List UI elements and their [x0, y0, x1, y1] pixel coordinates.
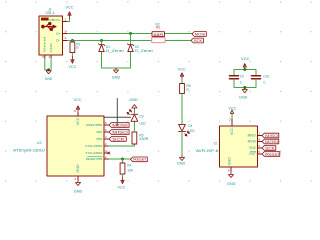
U3 pin 5 AREF/PB0 [104, 124, 109, 126]
svg-text:PB2: PB2 [97, 137, 103, 141]
wire R1 bottom [71, 53, 73, 57]
global label Reset [131, 157, 148, 162]
U3 pin 4 GND [77, 176, 79, 181]
power VCC (U3) [76, 106, 79, 113]
svg-text:MOSI: MOSI [195, 32, 206, 36]
wire R1 top [72, 41, 74, 43]
wire D2 bottom [130, 52, 132, 69]
svg-text:SCK: SCK [194, 39, 203, 43]
power VCC (J1) [68, 12, 71, 19]
junction reset [121, 158, 124, 161]
svg-text:ATtiny85-20SU: ATtiny85-20SU [13, 148, 46, 152]
svg-text:SCK: SCK [265, 146, 276, 150]
svg-text:GND: GND [177, 162, 186, 166]
no-connect pin 3 [108, 152, 110, 154]
J2 pin 3 SCK [258, 147, 263, 149]
J2 pin 6 GND [230, 167, 232, 171]
svg-text:Shield: Shield [43, 36, 47, 53]
svg-text:C: C [240, 80, 243, 84]
ground (D4) [179, 156, 184, 161]
wire zener common [102, 67, 131, 69]
svg-text:GND: GND [45, 77, 53, 81]
wire D4 to GND [181, 131, 183, 155]
ground (zeners) [113, 68, 118, 73]
wire cap bottom rail [234, 79, 256, 88]
svg-text:D+: D+ [56, 32, 60, 36]
J2 pin 2 VCC [231, 119, 233, 126]
svg-text:VCC: VCC [118, 186, 127, 190]
diode D3 LED [127, 110, 138, 122]
svg-text:PB1: PB1 [97, 130, 103, 134]
ground (J2) [228, 171, 233, 178]
svg-text:D-: D- [56, 38, 59, 42]
U3 pin 1 RESET/PB5 [104, 158, 109, 160]
svg-text:C: C [263, 80, 266, 84]
diode D4 LED [179, 124, 190, 136]
svg-text:10k: 10k [127, 168, 133, 172]
svg-text:AVR-ISP-6: AVR-ISP-6 [196, 149, 219, 153]
diode D2 D_Zener [128, 44, 134, 52]
svg-text:U3: U3 [37, 141, 42, 145]
svg-text:USB_A: USB_A [46, 11, 56, 15]
wire PB5 reset [109, 158, 131, 160]
power VCC (caps) [243, 64, 246, 70]
svg-text:RST: RST [249, 152, 255, 156]
svg-text:Reset: Reset [133, 158, 146, 162]
resistor R5 [132, 132, 137, 144]
svg-text:R3: R3 [156, 26, 160, 30]
svg-text:C9: C9 [240, 74, 244, 78]
wire PB3 to R5 [109, 144, 134, 146]
svg-text:VCC: VCC [230, 126, 234, 135]
svg-text:XTAL2/PB4: XTAL2/PB4 [85, 151, 102, 155]
power VCC (J2) [230, 110, 233, 115]
wire D+ after R2 [165, 33, 193, 35]
svg-text:68R: 68R [153, 33, 164, 37]
svg-text:Reset: Reset [265, 152, 279, 156]
junction D2 tap [129, 32, 132, 35]
wire D3 to GND [133, 109, 135, 114]
wire D1 top [101, 41, 103, 45]
U3 pin 8 VCC [77, 113, 79, 117]
svg-text:XTAL1/PB3: XTAL1/PB3 [85, 144, 102, 148]
wire J1 gnd down [50, 58, 52, 70]
U3 pin 3 XTAL2/PB4 [104, 152, 109, 154]
wire VCC to J2 pin2 [231, 115, 233, 120]
svg-text:6: 6 [228, 168, 230, 172]
svg-text:D_Zener: D_Zener [135, 49, 154, 53]
svg-text:GND: GND [239, 95, 248, 99]
resistor R4 [120, 163, 125, 174]
J1 pin 1 VBUS stub [63, 21, 68, 23]
svg-text:VCC: VCC [68, 65, 77, 69]
cursor crosshair [104, 99, 131, 126]
USB trident icon [42, 22, 56, 30]
svg-text:LED: LED [140, 121, 147, 125]
svg-text:RESET/PB5: RESET/PB5 [86, 157, 103, 161]
resistor R1 [70, 42, 75, 53]
global label MOSI (J2) [262, 139, 279, 144]
wire D+ line [68, 33, 153, 35]
svg-text:GND: GND [129, 98, 138, 102]
J1 pin 2 D- stub [63, 40, 68, 42]
svg-text:VCC: VCC [241, 57, 250, 61]
resistor R3 (highlighted) [152, 38, 165, 43]
svg-text:VCC: VCC [76, 117, 80, 126]
svg-text:MOSI: MOSI [112, 123, 128, 127]
global label Reset (J2) [262, 152, 280, 157]
ground (J1) [46, 70, 51, 74]
wire D2 top [130, 34, 132, 45]
junction D1 tap [100, 39, 103, 42]
svg-text:SCK: SCK [112, 137, 126, 141]
svg-text:D4: D4 [188, 124, 192, 128]
VBUS icon [41, 18, 49, 21]
wire D- line [68, 40, 153, 42]
svg-text:LED: LED [188, 129, 195, 133]
ground (caps) [242, 88, 247, 93]
svg-text:GND: GND [227, 182, 236, 186]
svg-text:GND: GND [49, 43, 53, 53]
wire D- after R3 [165, 40, 191, 42]
wire reset to R4 [122, 159, 124, 163]
wire R5 to D3 [133, 121, 135, 132]
svg-text:VCC: VCC [178, 68, 187, 72]
capacitor C10 [252, 76, 261, 79]
power VCC (R1, rotated 180) [71, 57, 74, 64]
wire J1 shield down [45, 58, 48, 70]
J1 pin 4 gnd stub [50, 55, 52, 58]
svg-text:GND: GND [74, 190, 83, 194]
svg-text:VCC: VCC [228, 106, 237, 110]
svg-text:MOSI: MOSI [248, 140, 256, 144]
svg-text:MISO: MISO [248, 134, 257, 138]
U3 pin 6 PB1 [104, 131, 109, 133]
J2 pin 4 MOSI [258, 141, 263, 143]
connector J1 USB_A body [39, 7, 63, 55]
svg-text:8: 8 [74, 109, 76, 113]
svg-text:SCK: SCK [249, 146, 256, 150]
svg-text:MISO: MISO [265, 134, 278, 138]
capacitor C9 [230, 76, 239, 79]
svg-text:R: R [186, 88, 189, 92]
svg-text:C10: C10 [263, 74, 269, 78]
wire R4 bottom [122, 174, 124, 177]
svg-text:J2: J2 [214, 142, 218, 146]
wire VBUS to VCC [68, 19, 70, 22]
wire VCC to R6 [181, 80, 183, 84]
connector J2 AVR-ISP-6 body [220, 126, 258, 167]
global label SCK (U3) [109, 137, 126, 142]
ground (D3, rotated) [132, 105, 137, 109]
global label MISO (U3) [109, 130, 129, 135]
wire cap top rail [234, 70, 256, 76]
resistor R2 (with value inside) [152, 32, 165, 37]
resistor R6 [180, 84, 185, 94]
global label MOSI (usb) [192, 32, 206, 37]
svg-text:R4: R4 [127, 163, 131, 167]
global label MOSI (U3) [109, 123, 129, 128]
svg-text:VBUS: VBUS [49, 18, 60, 22]
svg-text:D_Zener: D_Zener [106, 49, 125, 53]
global label SCK (J2) [262, 146, 276, 151]
svg-text:4: 4 [74, 177, 76, 181]
power VCC (R4, rotated 180) [121, 177, 124, 184]
wire R6 to D4 [181, 94, 183, 125]
wire D1 bottom [101, 52, 103, 69]
svg-text:MISO: MISO [112, 130, 128, 134]
J2 pin 5 RST [258, 153, 263, 155]
junction J1 gnd [47, 68, 50, 71]
J1 pin 5 shield stub [44, 55, 46, 58]
global label MISO (J2) [262, 133, 279, 138]
svg-text:2: 2 [229, 117, 231, 121]
J2 pin 1 MISO [258, 135, 263, 137]
svg-text:MOSI: MOSI [265, 140, 278, 144]
U3 pin 7 PB2 [104, 138, 109, 140]
diode D1 D_Zener [99, 44, 105, 52]
svg-text:330R: 330R [139, 137, 149, 141]
junction cap bottom [243, 86, 246, 89]
svg-text:2: 2 [65, 36, 67, 40]
global label SCK (usb) [191, 38, 203, 43]
J1 pin 3 D+ stub [63, 33, 68, 35]
svg-text:AREF/PB0: AREF/PB0 [86, 123, 103, 127]
svg-text:D3: D3 [140, 114, 144, 118]
svg-text:VCC: VCC [74, 98, 83, 102]
IC U3 ATtiny85 body [47, 116, 104, 176]
ground (U3) [75, 181, 80, 186]
junction R1 tap [71, 39, 74, 42]
svg-text:GND: GND [112, 75, 121, 79]
svg-text:GND: GND [228, 156, 232, 165]
U3 pin 2 XTAL1/PB3 [104, 145, 109, 147]
svg-text:VCC: VCC [66, 6, 75, 10]
svg-text:GND: GND [76, 163, 80, 172]
junction cap top [243, 68, 246, 71]
power VCC (D4 chain) [180, 73, 183, 80]
